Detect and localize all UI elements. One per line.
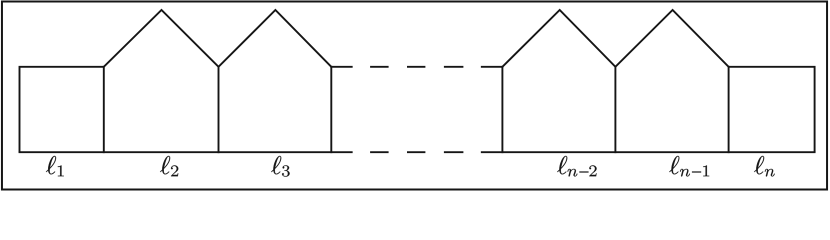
label l3: script ell <box>271 156 281 174</box>
baseline right solid segment <box>482 151 815 153</box>
wall between l1 and l2 <box>103 67 105 152</box>
label l_n: script ell <box>754 156 764 174</box>
wall between l2 and l3 <box>218 67 220 152</box>
top dashed line left stub <box>331 66 351 68</box>
label l_{n-2}: subscript minus <box>579 171 588 172</box>
top dashed line right stub <box>482 66 503 68</box>
right buildings outline (roofs l_{n-2} l_{n-1}, square l_n) <box>502 10 814 152</box>
label l_{n-1}: script ell <box>669 156 679 174</box>
outer border frame <box>2 2 827 190</box>
wall between l_{n-2} and l_{n-1} <box>614 67 616 152</box>
label l1: subscript 1 <box>58 165 64 176</box>
label l_n: subscript n <box>765 169 775 177</box>
top dashed segment <box>370 66 389 68</box>
right wall of l3 <box>330 67 332 152</box>
label l3: subscript 3 <box>282 165 290 176</box>
left buildings outline (square l1, roofs l2 l3) <box>20 10 332 152</box>
left wall of l_{n-2} <box>501 67 503 152</box>
label l_{n-2}: script ell <box>557 156 567 174</box>
wall between l_{n-1} and l_n <box>728 67 730 152</box>
label l_{n-2}: subscript n <box>567 169 577 177</box>
label l1: script ell <box>46 156 56 174</box>
label l_{n-2}: subscript 2 <box>589 165 596 176</box>
label l_{n-1}: subscript minus <box>692 171 701 172</box>
label l2: script ell <box>160 156 170 174</box>
baseline left solid segment <box>20 151 352 153</box>
baseline dashed segment <box>370 151 389 153</box>
label l_{n-1}: subscript 1 <box>703 165 709 176</box>
label l_{n-1}: subscript n <box>680 169 690 177</box>
label l2: subscript 2 <box>171 165 178 176</box>
